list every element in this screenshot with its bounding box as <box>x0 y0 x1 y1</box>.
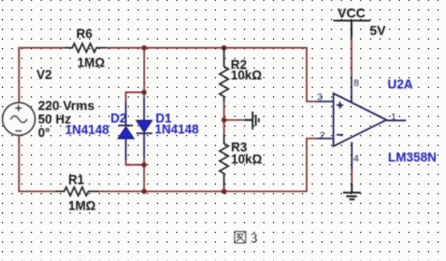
svg-text:V2: V2 <box>37 68 52 82</box>
svg-text:1MΩ: 1MΩ <box>68 199 96 213</box>
wire: V2 plus terminal up to top rail and right to R6 <box>19 48 64 103</box>
wire: R6 right to op-amp pin3 corner <box>106 48 316 102</box>
junction: diode branch bottom merge <box>142 162 147 167</box>
op-amp U2A <box>316 77 406 171</box>
value label 10kΩ (R2) <box>231 68 262 82</box>
svg-text:VCC: VCC <box>338 5 367 20</box>
svg-text:3: 3 <box>317 92 322 103</box>
junction: bottom rail / diode branch <box>142 189 147 194</box>
ground (op-amp pin4) <box>343 183 361 199</box>
pin number 1 <box>391 112 396 123</box>
svg-text:D2: D2 <box>111 112 127 126</box>
pin number 3 <box>317 92 322 103</box>
wire: top rail down to diode pair branch <box>143 48 145 93</box>
resistor R1 <box>55 187 99 196</box>
svg-text:220 Vrms: 220 Vrms <box>38 99 95 113</box>
resistor R3 <box>220 135 229 187</box>
svg-text:R1: R1 <box>68 173 84 187</box>
label R2 <box>231 58 247 72</box>
wire: jog to D2 branch top <box>126 92 144 102</box>
value label 10kΩ (R3) <box>231 153 262 167</box>
svg-text:1N4148: 1N4148 <box>155 123 199 137</box>
label D2 <box>111 112 127 126</box>
svg-text:10kΩ: 10kΩ <box>231 68 262 82</box>
value label 1MΩ (R6) <box>77 56 105 70</box>
svg-text:3: 3 <box>251 231 258 246</box>
resistor R6 <box>64 43 106 52</box>
svg-text:LM358N: LM358N <box>388 150 437 164</box>
wire: D2 branch bottom jog to D1 branch <box>126 161 144 165</box>
wire: R2 bottom to mid node <box>223 102 225 120</box>
VCC power symbol <box>333 21 370 38</box>
wire: mid node to ground <box>224 119 244 121</box>
junction: bottom rail / R3 <box>221 189 226 194</box>
svg-text:U2A: U2A <box>388 78 414 92</box>
label D1 <box>156 112 172 126</box>
value label 5V <box>370 23 386 38</box>
label R3 <box>231 141 247 155</box>
svg-text:10kΩ: 10kΩ <box>231 153 262 167</box>
value label 1N4148 (D1) <box>155 123 199 137</box>
junction: top rail / R2 <box>221 45 226 50</box>
ground (mid node, rotated right) <box>244 112 259 130</box>
wire: D1 branch top stub <box>143 92 145 97</box>
svg-text:4: 4 <box>354 154 359 165</box>
value label 220 Vrms <box>38 99 95 113</box>
resistor R2 <box>220 48 229 102</box>
label R1 <box>68 173 84 187</box>
svg-text:8: 8 <box>354 78 359 89</box>
pin number 8 <box>354 78 359 89</box>
voltage source V2 <box>3 103 35 135</box>
svg-text:2: 2 <box>320 130 325 141</box>
wire: R1 right along bottom rail up to op-amp pin2 <box>100 139 317 192</box>
junction: R2/R3 mid node <box>221 117 226 122</box>
value label 50 Hz <box>38 112 71 126</box>
junction: top rail / diode branch <box>142 45 147 50</box>
pin number 4 <box>354 154 359 165</box>
label VCC <box>338 5 367 20</box>
value label 0 deg <box>38 126 50 140</box>
wire: op-amp pin4 to ground <box>351 170 353 183</box>
wire: VCC to op-amp pin8 <box>351 38 353 77</box>
value label 1N4148 (D2) <box>65 123 109 137</box>
svg-text:R6: R6 <box>76 27 92 41</box>
junction: diode branch split <box>142 90 147 95</box>
label U2A <box>388 78 414 92</box>
diode D1 (1N4148, pointing down) <box>136 98 152 158</box>
svg-text:1: 1 <box>391 112 396 123</box>
svg-text:1N4148: 1N4148 <box>65 123 109 137</box>
wire: mid node to R3 top <box>223 120 225 135</box>
svg-text:5V: 5V <box>370 23 386 38</box>
label LM358N <box>388 150 437 164</box>
diode D2 (1N4148, pointing up) <box>118 102 134 161</box>
svg-text:0°: 0° <box>38 126 50 140</box>
pin number 2 <box>320 130 325 141</box>
wire: diode branch down to bottom rail <box>143 158 145 192</box>
label V2 <box>37 68 52 82</box>
svg-text:1MΩ: 1MΩ <box>77 56 105 70</box>
wire: R3 bottom to bottom rail <box>223 187 225 192</box>
value label 1MΩ (R1) <box>68 199 96 213</box>
caption 图 3 <box>235 232 246 244</box>
wire: V2 minus terminal down and right to R1 <box>19 135 55 191</box>
label R6 <box>76 27 92 41</box>
